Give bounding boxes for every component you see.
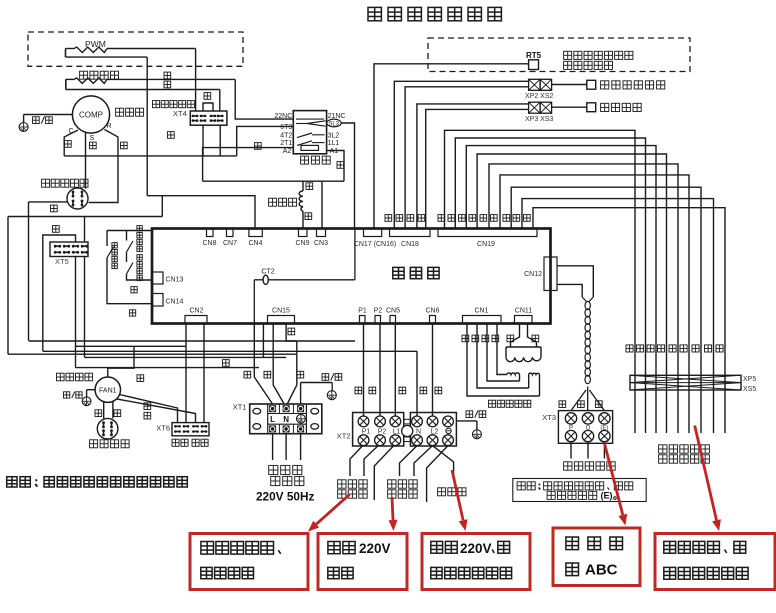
svg-text:L2: L2 (431, 428, 439, 435)
label 制信号 (388, 490, 396, 498)
label 连水泵箱处 (659, 445, 667, 453)
wire XT2 out w2 (364, 446, 378, 476)
connector CN18 (390, 229, 431, 237)
svg-text:CT2: CT2 (261, 269, 274, 276)
switch 过压保护/过热保护 (126, 231, 128, 241)
label 红 (337, 162, 344, 169)
svg-text:2T1: 2T1 (280, 140, 292, 147)
svg-text:N: N (283, 415, 289, 424)
label 总电源 (271, 476, 280, 485)
svg-text:R: R (106, 123, 111, 130)
connector CN4 (249, 229, 262, 237)
svg-text:5L3: 5L3 (329, 122, 340, 128)
connector P2 (375, 316, 381, 324)
terminal block XT1 mains (250, 404, 322, 434)
terminal block XT3 (558, 411, 612, 444)
svg-text:XP2 XS2: XP2 XS2 (525, 93, 554, 100)
wire fan 黄 to XT6 (117, 399, 196, 423)
labels above XT2 蓝蓝红黑红 (355, 387, 362, 394)
earth screw XT1 (297, 414, 306, 423)
transformer secondary a (507, 373, 520, 375)
svg-text:CN8: CN8 (202, 240, 216, 247)
wire XT1 t2b from bus (288, 341, 297, 404)
label 红 (129, 310, 135, 316)
wire bus y351 to XT2 N (43, 350, 417, 352)
label 蓝 (95, 410, 102, 417)
label 黄/绿 (64, 392, 70, 398)
label 红 (507, 335, 514, 342)
compressor COMP (72, 96, 109, 133)
wire XT2 out w3 (374, 446, 393, 500)
label 电源变压器 (489, 400, 496, 407)
wire CN4 feeder (147, 196, 255, 229)
label 黑 (596, 401, 603, 408)
connector CN12 (544, 257, 557, 291)
wire A1 (327, 151, 344, 182)
label 低风 (172, 439, 179, 446)
wire CN19 sensor 红 (489, 164, 678, 433)
wire switch top bus (107, 230, 152, 232)
label 黑 (168, 132, 175, 139)
svg-text:CN7: CN7 (223, 240, 237, 247)
connector CN15 (268, 316, 295, 324)
terminal block XT2 left (353, 413, 404, 447)
label 黑 (bus) (223, 360, 230, 367)
wire CN1-c to secondary (477, 324, 529, 389)
wire CN19 sensor 绿 (522, 199, 714, 433)
wire C leg 红 to node (64, 130, 78, 156)
contactor 接触器 (293, 111, 326, 154)
wire XP2 pair b (405, 87, 528, 229)
wire CN11-a to primary (511, 324, 520, 348)
ground symbol XT2 (472, 430, 481, 439)
wire XT5 pin3 down (75, 257, 77, 368)
connector XP2 XS2 (529, 79, 541, 90)
svg-text:CN5: CN5 (386, 308, 400, 315)
wire left vertical bus 黑 (28, 202, 30, 341)
sensor 室外环境温度 (587, 80, 596, 89)
svg-text:P1: P1 (362, 428, 371, 435)
wire XT1 t3 with earth tap (301, 382, 333, 384)
label 黑 (137, 375, 144, 382)
callout box 接靶流开关 弱电信号 (190, 534, 308, 590)
wire XT5 top bus (8, 216, 162, 218)
wire XP2 pair a (394, 81, 528, 228)
terminal block XT4 (190, 111, 227, 125)
label 棕 (164, 81, 171, 88)
svg-text:XP3 XS3: XP3 XS3 (525, 116, 554, 123)
note 注意：对于定频系统无虚线部分 (7, 477, 17, 487)
wire XT4 jumper 黑 loop (203, 103, 213, 111)
label 黄 (144, 412, 151, 419)
svg-text:XP5: XP5 (743, 376, 756, 383)
wire to CN3 (321, 181, 323, 228)
arrow to box4 (605, 444, 623, 515)
labels 灰白黑橙红蓝紫绿棕 (above XP5) (626, 345, 633, 352)
wire brown to contactor 22NC (235, 79, 293, 119)
label 蓝 (114, 410, 121, 417)
connector CN1 (463, 316, 502, 324)
svg-text:220V: 220V (359, 541, 391, 556)
connector CN13 (152, 272, 163, 284)
wire 5L3 红 to board (341, 123, 354, 229)
svg-text:CN15: CN15 (272, 308, 290, 315)
svg-text:XS5: XS5 (743, 386, 756, 393)
labels 白白黑黑 (385, 215, 392, 222)
svg-text:XT3: XT3 (542, 413, 556, 422)
label 蓝 (306, 183, 313, 190)
wire 6T3 branch (237, 126, 294, 155)
capacitor 压缩机电容 (67, 188, 88, 209)
label 水泵控 (388, 480, 396, 488)
label 黑 (297, 371, 304, 378)
label 压缩机电容 (42, 179, 50, 187)
mini earth screw XT2 (446, 428, 451, 433)
label 水流检 (338, 480, 346, 488)
label 黑 (53, 226, 60, 233)
svg-text:Q: Q (586, 426, 591, 432)
arrow to box2 (392, 497, 393, 520)
wire CN5 to XT2 (394, 324, 396, 417)
svg-text:P2: P2 (378, 428, 387, 435)
svg-text:CN9: CN9 (295, 240, 309, 247)
label 接触器 (301, 156, 309, 164)
wire far-left vertical (7, 217, 9, 355)
svg-text:CN1: CN1 (474, 308, 488, 315)
wire CN1-a to secondary (497, 324, 507, 375)
labels 灰白黑橙红蓝紫绿棕 (above CN19) (438, 215, 445, 222)
wire compressor earth (24, 114, 73, 116)
svg-text:XT4: XT4 (173, 109, 187, 118)
connector CN14 (152, 294, 163, 307)
wire XT2 out w6 (427, 446, 448, 502)
wire junction riser to CN4 feeder (161, 196, 163, 217)
wire S leg 白 to capacitor (85, 133, 87, 189)
label 黑 (121, 142, 128, 149)
wire brown to XT4 pin4 (219, 90, 221, 112)
wire XT5 pin4 up (84, 217, 86, 243)
title 室外机接线铭牌 (368, 7, 381, 20)
svg-text:220V: 220V (460, 541, 492, 556)
label 黄 (559, 401, 566, 408)
wire CN19 sensor 橙 (477, 154, 666, 433)
label 温度传感器 (659, 455, 667, 463)
label 测信号 (338, 490, 346, 498)
wire switch1 to CN14 (107, 278, 152, 304)
wire XT4 pin2 down to bus (202, 125, 204, 156)
wire CN19 sensor 棕 (533, 208, 725, 433)
wire split to XT3 terminals (587, 387, 589, 411)
connector CN6 (430, 316, 436, 324)
ground symbol (compressor 黄/绿) (19, 123, 28, 132)
connector CN8 (207, 229, 214, 237)
wire CN15-b 黑 jog to bus (286, 324, 297, 342)
wire bus y346 FAN black (76, 345, 187, 347)
connector CN9 (299, 229, 308, 237)
wire XT3 outputs (570, 443, 572, 458)
label 中间接线座 (153, 101, 160, 108)
svg-text:XT1: XT1 (233, 403, 247, 412)
arrow to box5 (695, 426, 717, 521)
switch 欠压保护 (106, 231, 108, 247)
svg-text:COMP: COMP (79, 111, 103, 120)
wire valve to CN9 蓝 (302, 211, 304, 228)
svg-text:CN17 (CN16): CN17 (CN16) (354, 241, 396, 248)
wire capacitor left to left bus (29, 201, 68, 203)
terminal block XT2 right (410, 413, 456, 447)
label 黄/绿 (XT1 earth) (322, 374, 329, 381)
wire CN15-c down (262, 324, 264, 358)
svg-text:L1: L1 (393, 428, 401, 435)
svg-text:(E): (E) (600, 426, 608, 432)
wire bus y368 (76, 367, 259, 369)
svg-text:1L1: 1L1 (328, 140, 340, 147)
wire CN2-b to XT6 (203, 324, 205, 423)
main control board 主控板 (152, 229, 551, 324)
wire CN15-a to XT1 t2a (273, 324, 284, 404)
svg-text:CN14: CN14 (166, 299, 184, 306)
label 白 (90, 142, 97, 149)
callout box 输出220V电压 (318, 534, 407, 590)
callout box 接进出水 板换四个传感器 (655, 534, 775, 590)
transformer secondary b (529, 373, 540, 374)
label 蓝 (305, 213, 312, 220)
wire CN6 to XT2 L2 (432, 324, 434, 417)
wire switch2 to CN13 (127, 274, 153, 280)
wire R leg 黑 to capacitor (89, 130, 119, 203)
label 过压保护 (vertical) (137, 226, 142, 231)
note box 注意 shielded wire (513, 479, 646, 502)
wire XT1 outputs (272, 434, 274, 460)
svg-text:CN6: CN6 (425, 308, 439, 315)
svg-text:S: S (90, 135, 95, 142)
wire RT5 sensor (374, 64, 529, 229)
svg-text:ABC: ABC (585, 562, 618, 579)
sensor 室外管温 (587, 103, 596, 112)
svg-text:CN12: CN12 (524, 271, 542, 278)
callout box 输出220V 控制接触器线圈 (422, 534, 530, 590)
label 压缩机 (116, 108, 124, 116)
wire fan earth (87, 389, 96, 391)
connector CN17 (CN16) (364, 229, 382, 237)
svg-text:220V 50Hz: 220V 50Hz (256, 490, 314, 504)
twisted pair to XT3 (589, 297, 594, 302)
wire CN19 sensor 黑 (466, 146, 656, 433)
connector CN5 (390, 316, 396, 324)
svg-text:A1: A1 (330, 148, 339, 155)
label 主控板 (393, 267, 404, 278)
connector XP5 XS5 (630, 375, 741, 390)
connector CN3 (317, 229, 326, 237)
wire XT2 earth (456, 420, 477, 422)
resistor 电加热带 heater band (80, 71, 88, 79)
wire CN11-b to primary (528, 324, 537, 348)
svg-text:CN13: CN13 (166, 277, 184, 284)
wire XT4 pin4 down to bus (219, 125, 221, 156)
dashed box (inverter-only section, top-left) (28, 32, 243, 66)
wire bus y354 (8, 353, 296, 355)
coupling circle XT2 (402, 425, 413, 436)
label 温度传感器 (564, 61, 572, 69)
label 高风 (192, 439, 199, 446)
wire 红/PWM/6T3 bus (64, 155, 237, 157)
wire CN12 lower (557, 284, 582, 297)
wire heater lower 棕 (66, 89, 220, 91)
wire fan 红 to XT6 (120, 395, 178, 423)
wire PWM to XT4 pin1 (195, 49, 197, 112)
wire CN19 sensor 紫 (511, 187, 701, 433)
ground symbol XT1 (331, 383, 333, 391)
wire XT2 out w7 (433, 446, 454, 480)
svg-text:XT2: XT2 (337, 432, 351, 441)
label 黄/绿 (466, 411, 473, 418)
wire XT2 out w5 (414, 446, 433, 476)
wire A-bus horizontal (203, 180, 344, 182)
connector P1 (360, 316, 366, 324)
connector CN11 (515, 316, 533, 324)
svg-text:6T3: 6T3 (280, 124, 292, 131)
svg-text:FAN1: FAN1 (99, 388, 117, 395)
connector CN2 (185, 316, 207, 324)
wire XP3 pair b (426, 109, 529, 228)
wire CN1-d to secondary (467, 324, 540, 397)
connector XP3 XS3 (529, 102, 541, 113)
svg-text:XT5: XT5 (55, 257, 69, 266)
label 四通阀 (269, 198, 277, 206)
contactor coil A1-A2 (301, 145, 319, 150)
wire PWM lower to CN4 feeder (146, 57, 148, 196)
label 欠压保护 (vertical) (112, 243, 117, 248)
label 红 (264, 371, 271, 378)
arrow to box3 (452, 470, 463, 520)
svg-text:A2: A2 (283, 148, 292, 155)
label 室外机 (269, 465, 278, 474)
label 室外风机 (57, 373, 65, 381)
terminal block XT5 (50, 242, 88, 257)
wire CN12 upper (557, 266, 593, 297)
svg-text:L: L (270, 415, 275, 424)
svg-text:4T2: 4T2 (280, 132, 292, 139)
callout box 接线控制器ABC (553, 528, 640, 586)
capacitor 风机电容 (97, 418, 118, 439)
svg-text:CN18: CN18 (401, 241, 419, 248)
svg-text:XT6: XT6 (156, 424, 170, 433)
label 红 (532, 335, 539, 342)
svg-text:P1: P1 (358, 308, 367, 315)
wire CN19 sensor 灰 (445, 130, 636, 433)
svg-text:N: N (416, 428, 421, 435)
svg-text:22NC: 22NC (274, 113, 292, 120)
svg-text:RT5: RT5 (526, 51, 542, 60)
contactor internal contacts (296, 118, 324, 120)
wire CN19 sensor 白 (455, 138, 645, 433)
svg-text:CN19: CN19 (477, 241, 495, 248)
label 红 (244, 371, 251, 378)
wire fan to capacitor 蓝 b (112, 401, 114, 419)
label 到室内通讯 (564, 462, 572, 470)
ground symbol FAN1 (82, 397, 91, 406)
wire bus y341 (29, 340, 356, 342)
label 灰 (578, 401, 585, 408)
wire A2 黑 (203, 148, 294, 182)
svg-text:3L2: 3L2 (328, 132, 340, 139)
svg-text:(E): (E) (601, 491, 613, 501)
label 黑 (CN15) (288, 328, 295, 335)
arrow to box1 (316, 495, 349, 525)
wire XT5 pin3 loop to left bus (43, 235, 76, 351)
wire XT2 out w1 (350, 446, 363, 476)
wire XT5 pin4 down (84, 257, 86, 358)
label 风机电容 (90, 440, 98, 448)
transformer 电源变压器 primary (506, 346, 541, 348)
wire CN1-b to secondary (487, 324, 520, 382)
fan motor FAN1 (95, 377, 120, 402)
svg-text:CN2: CN2 (189, 308, 203, 315)
dashed box (top-right sensor section) (428, 38, 690, 72)
wire CT2 line to XT1 t1 (254, 324, 272, 404)
svg-text:CN11: CN11 (515, 308, 532, 315)
wire CN19 sensor 蓝 (500, 175, 689, 433)
label 黑 (204, 93, 211, 100)
svg-text:CN4: CN4 (248, 240, 262, 247)
label 红 (144, 403, 151, 410)
wire XS2 to ambient sensor (552, 84, 587, 86)
label 电辅热 (438, 488, 446, 496)
wire P1 to XT2 (363, 324, 365, 417)
svg-text:CN3: CN3 (314, 240, 328, 247)
label 黄/绿 (33, 117, 40, 124)
wire XS3 to pipe sensor (552, 106, 587, 108)
label 红 (65, 141, 72, 148)
label 过热保护 (vertical) (137, 255, 142, 260)
label 黑 (51, 205, 58, 212)
label 黑 (255, 143, 262, 150)
labels 黄黄棕棕 (462, 335, 469, 342)
wire bus y357 (85, 356, 287, 358)
terminal block XT6 (172, 423, 209, 436)
wire XP3 pair a (417, 104, 529, 229)
connector CN7 (227, 229, 234, 237)
wire fan 黑 to bus (108, 346, 134, 377)
wire CN2-a to XT6 (185, 324, 187, 423)
wire XT2 out w4 (400, 446, 418, 476)
label 棕 (164, 72, 171, 79)
svg-text:P: P (569, 426, 573, 432)
connector CN19 (438, 229, 537, 237)
inductor 四通阀 coil (302, 181, 304, 191)
wire PWM lower return (66, 56, 148, 58)
wire P2 to XT2 (379, 324, 381, 417)
terminal 5L3 oval (327, 119, 341, 127)
label 数码压缩机排气 (564, 51, 572, 59)
svg-text:P2: P2 (374, 308, 383, 315)
wire fan to capacitor 蓝 a (103, 401, 105, 419)
label 黄 (131, 287, 137, 293)
